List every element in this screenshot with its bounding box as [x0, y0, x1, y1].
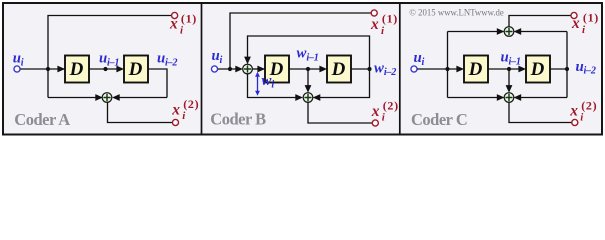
svg-text:D: D	[530, 59, 545, 80]
svg-text:u: u	[212, 48, 220, 64]
svg-text:i–2: i–2	[165, 57, 177, 68]
svg-text:i: i	[21, 58, 24, 69]
svg-text:w: w	[374, 60, 384, 76]
svg-text:u: u	[99, 50, 107, 66]
svg-text:x: x	[571, 15, 580, 32]
svg-text:i: i	[220, 55, 223, 66]
svg-text:Coder B: Coder B	[210, 109, 266, 128]
svg-text:x: x	[370, 16, 379, 33]
svg-text:u: u	[414, 50, 422, 66]
svg-text:i: i	[271, 80, 274, 91]
svg-text:u: u	[13, 51, 21, 67]
svg-text:Coder A: Coder A	[14, 110, 70, 129]
svg-text:(2): (2)	[183, 97, 199, 111]
svg-text:(1): (1)	[583, 11, 599, 25]
svg-text:i–2: i–2	[584, 66, 596, 77]
svg-text:w: w	[262, 73, 272, 89]
svg-text:w: w	[297, 46, 307, 62]
svg-text:x: x	[169, 16, 178, 33]
svg-text:i–2: i–2	[384, 67, 396, 78]
svg-text:D: D	[331, 59, 346, 80]
svg-text:Coder C: Coder C	[411, 110, 467, 129]
svg-text:x: x	[569, 103, 578, 120]
svg-text:© 2015 www.LNTwww.de: © 2015 www.LNTwww.de	[409, 8, 504, 19]
svg-text:D: D	[468, 59, 483, 80]
svg-text:(2): (2)	[383, 99, 399, 113]
svg-text:x: x	[371, 103, 380, 120]
svg-text:(1): (1)	[382, 12, 398, 26]
svg-text:u: u	[501, 50, 509, 66]
svg-text:i–1: i–1	[107, 57, 119, 68]
svg-text:D: D	[69, 59, 84, 80]
svg-text:x: x	[171, 101, 180, 118]
svg-text:u: u	[576, 59, 584, 75]
svg-text:i–1: i–1	[306, 53, 318, 64]
svg-text:(2): (2)	[581, 98, 597, 112]
svg-text:(1): (1)	[181, 11, 197, 25]
svg-text:D: D	[128, 59, 143, 80]
svg-text:u: u	[157, 50, 165, 66]
svg-text:i–1: i–1	[509, 57, 521, 68]
svg-text:i: i	[422, 57, 425, 68]
